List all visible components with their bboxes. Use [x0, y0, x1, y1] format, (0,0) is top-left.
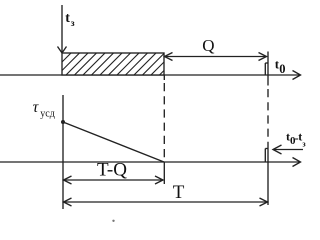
wire top axis arrowhead	[293, 71, 301, 80]
Q left arrowhead	[165, 53, 173, 61]
hatch lines	[48, 52, 183, 76]
wire dashed projection line at x=268	[267, 89, 269, 146]
svg-text:Q: Q	[202, 36, 214, 55]
wire dashed projection line at x=164	[163, 83, 165, 160]
svg-text:T: T	[173, 182, 185, 203]
hatched pulse rectangle	[62, 53, 164, 75]
wire vertical guide at pulse right edge	[267, 52, 269, 86]
svg-text:τ: τ	[33, 99, 40, 116]
wire t3 marker vertical line	[61, 5, 63, 53]
pulse on top axis	[264, 63, 266, 75]
svg-text:з: з	[71, 19, 75, 29]
svg-text:усд: усд	[40, 109, 55, 120]
wire vertical guide through bottom pulse down to T arrow	[267, 146, 269, 205]
wire T dimension arrow	[64, 201, 268, 203]
T-Q right arrowhead	[155, 176, 163, 184]
wire bottom time axis	[0, 161, 300, 163]
node small dot artifact	[112, 220, 114, 222]
wire bottom axis arrowhead	[293, 158, 301, 167]
svg-text:з: з	[302, 140, 306, 149]
T left arrowhead	[64, 198, 72, 206]
wire top time axis t0	[0, 74, 300, 76]
wire decreasing diagonal tau line	[63, 122, 164, 162]
pulse on bottom axis	[264, 149, 266, 163]
node start dot on tau axis	[61, 120, 65, 124]
Q right arrowhead	[259, 53, 267, 61]
T right arrowhead	[260, 198, 268, 206]
wire vertical stub below bottom axis at x=164	[163, 162, 165, 184]
svg-text:0: 0	[279, 62, 285, 76]
wire tau vertical axis	[62, 95, 64, 209]
wire solid stub below top axis at x=164	[163, 75, 165, 80]
wire t3 marker down arrowhead	[58, 47, 67, 54]
svg-text:T-Q: T-Q	[97, 159, 127, 180]
wire Q dimension arrow	[165, 56, 267, 58]
svg-text:t: t	[65, 11, 70, 26]
wire T-Q dimension arrow	[64, 179, 164, 181]
T-Q left arrowhead	[64, 176, 72, 184]
wire t0-t3 left pointing arrow	[273, 149, 303, 151]
